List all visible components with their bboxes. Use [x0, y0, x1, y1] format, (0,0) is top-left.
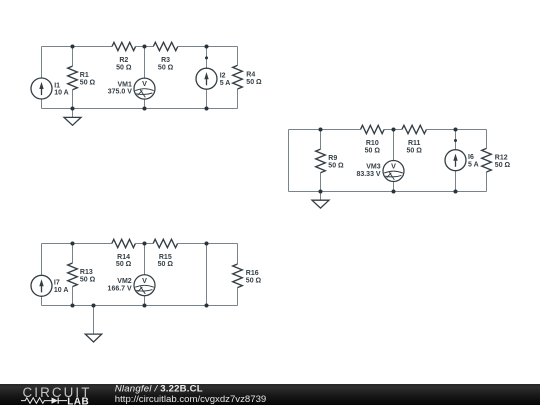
wire: C3 right branch [237, 244, 239, 306]
wire: C2 right branch [486, 130, 488, 192]
svg-text:LAB: LAB [67, 396, 89, 405]
svg-text:I6: I6 [468, 154, 474, 161]
wire: C1 R1 branch [72, 47, 74, 109]
svg-text:10 A: 10 A [54, 287, 69, 294]
junction C3 VM2 bottom [143, 304, 147, 308]
svg-text:50 Ω: 50 Ω [158, 261, 174, 268]
junction C3 middle bottom [205, 304, 209, 308]
wire: C1 right branch [237, 47, 239, 109]
svg-text:R4: R4 [246, 72, 255, 79]
svg-text:50 Ω: 50 Ω [116, 261, 132, 268]
logo CIRCUIT text [23, 385, 92, 400]
wire: C2 bottom rail [289, 191, 487, 193]
wire: C1 bottom rail [42, 108, 238, 110]
wire: C2 R9 branch [320, 130, 322, 192]
junction C2 R9 top [319, 128, 323, 132]
svg-text:R11: R11 [408, 140, 421, 147]
junction C2 I6 bottom [454, 190, 458, 194]
ground (C2) [312, 192, 329, 209]
resistor R1 50 ohm [68, 66, 96, 90]
svg-text:50 Ω: 50 Ω [158, 64, 174, 71]
resistor R12 50 ohm [482, 148, 511, 172]
junction C1 R1 bottom [71, 107, 75, 111]
svg-text:R16: R16 [246, 270, 259, 277]
junction C1 I2 bottom [205, 107, 209, 111]
svg-text:http://circuitlab.com/cvgxdz7v: http://circuitlab.com/cvgxdz7vz8739 [115, 394, 266, 405]
logo resistor-diode symbol [21, 398, 67, 404]
wire: C1 I2 branch [206, 47, 208, 109]
resistor R11 50 ohm [402, 125, 426, 154]
wire: C2 I6 branch [455, 130, 457, 192]
resistor R15 50 ohm [153, 239, 177, 268]
wire: C1 VM1 branch [144, 47, 146, 109]
svg-text:166.7 V: 166.7 V [108, 285, 132, 292]
svg-text:R1: R1 [80, 72, 89, 79]
junction C3 R13 top [71, 242, 75, 246]
wire: C3 VM2 branch [144, 244, 146, 306]
resistor R14 50 ohm [112, 239, 136, 268]
junction C3 middle top [205, 242, 209, 246]
svg-text:I2: I2 [220, 73, 226, 80]
svg-text:50 Ω: 50 Ω [495, 162, 511, 169]
junction C2 R9 bottom [319, 190, 323, 194]
svg-text:50 Ω: 50 Ω [365, 147, 381, 154]
svg-text:R15: R15 [159, 254, 172, 261]
wire: C2 left branch [288, 130, 290, 192]
junction C2 I6 wire [454, 139, 457, 142]
svg-text:VM3: VM3 [366, 164, 381, 171]
footer bar [0, 384, 540, 405]
junction C1 R1 top [71, 45, 75, 49]
svg-text:I7: I7 [54, 280, 60, 287]
svg-text:10 A: 10 A [54, 90, 69, 97]
wire: C3 top rail [42, 243, 238, 245]
svg-text:83.33 V: 83.33 V [356, 171, 380, 178]
resistor R10 50 ohm [361, 125, 385, 154]
svg-text:50 Ω: 50 Ω [116, 64, 132, 71]
resistor R16 50 ohm [233, 264, 262, 288]
svg-text:50 Ω: 50 Ω [328, 163, 344, 170]
svg-text:5 A: 5 A [220, 80, 231, 87]
junction C1 I2 wire [205, 56, 208, 59]
junction C1 VM1 bottom [143, 107, 147, 111]
current source I2 5 A [196, 68, 230, 89]
svg-text:R10: R10 [366, 140, 379, 147]
wire: C3 left branch [41, 244, 43, 306]
junction C2 VM3 top [392, 128, 396, 132]
voltmeter VM3 83.33 V [356, 161, 404, 182]
wire: C1 top rail [42, 46, 238, 48]
logo LAB text [67, 396, 89, 405]
wire: C3 middle branch [206, 244, 208, 306]
junction C3 R13 bottom [71, 304, 75, 308]
junction C1 I2 top [205, 45, 209, 49]
voltmeter VM2 166.7 V [108, 275, 155, 296]
svg-text:50 Ω: 50 Ω [407, 147, 423, 154]
svg-text:375.0 V: 375.0 V [108, 89, 132, 96]
wire: C2 VM3 branch [393, 130, 395, 192]
wire: C2 top rail [289, 129, 487, 131]
svg-text:I1: I1 [54, 82, 60, 89]
svg-text:V: V [142, 79, 147, 88]
wire: C1 left branch [41, 47, 43, 109]
svg-text:Nlangfel / 3.22B.CL: Nlangfel / 3.22B.CL [115, 384, 203, 395]
svg-text:50 Ω: 50 Ω [80, 277, 96, 284]
svg-text:VM2: VM2 [117, 278, 132, 285]
svg-text:V: V [391, 162, 396, 171]
svg-text:50 Ω: 50 Ω [246, 79, 262, 86]
svg-text:V: V [142, 276, 147, 285]
junction C2 VM3 bottom [392, 190, 396, 194]
svg-text:50 Ω: 50 Ω [80, 80, 96, 87]
wire: C3 R13 branch [72, 244, 74, 306]
svg-text:R2: R2 [119, 57, 128, 64]
junction C2 I6 top [454, 128, 458, 132]
footer title text [115, 384, 203, 395]
junction C3 VM2 top [143, 242, 147, 246]
svg-text:50 Ω: 50 Ω [246, 277, 262, 284]
resistor R13 50 ohm [68, 263, 96, 287]
junction C1 VM1 top [143, 45, 147, 49]
voltmeter VM1 375.0 V [108, 78, 155, 99]
resistor R2 50 ohm [112, 42, 136, 71]
current source I7 10 A [31, 275, 68, 296]
svg-text:R9: R9 [328, 155, 337, 162]
current source I1 10 A [31, 78, 69, 99]
resistor R9 50 ohm [316, 149, 344, 173]
footer url text [115, 394, 266, 405]
junction C3 ground [92, 304, 96, 308]
ground (C3) [85, 306, 101, 343]
svg-text:R12: R12 [495, 155, 508, 162]
wire: C3 bottom rail [42, 305, 238, 307]
resistor R4 50 ohm [233, 65, 262, 89]
svg-text:R3: R3 [161, 57, 170, 64]
resistor R3 50 ohm [153, 42, 177, 71]
svg-text:5 A: 5 A [468, 162, 479, 169]
ground (C1) [64, 109, 81, 126]
svg-text:VM1: VM1 [117, 81, 132, 88]
svg-text:R13: R13 [80, 269, 93, 276]
svg-text:R14: R14 [117, 254, 130, 261]
current source I6 5 A [445, 150, 479, 171]
